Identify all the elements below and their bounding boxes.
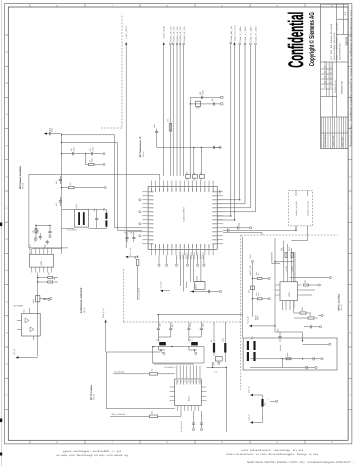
- junction vco feed: [61, 142, 62, 143]
- junction IF out: [190, 103, 191, 104]
- terminal +CC_2V8: [163, 42, 165, 45]
- svg-text:gez-anlage: schaltb. i. pt: gez-anlage: schaltb. i. pt: [63, 450, 122, 453]
- svg-text:RF/Channel Oscillator: RF/Channel Oscillator: [19, 166, 22, 189]
- svg-text:RXI4_IF_2V: RXI4_IF_2V: [183, 25, 186, 41]
- junction ferrite net: [212, 367, 213, 368]
- resistor R552: [69, 187, 75, 189]
- svg-text:100: 100: [134, 256, 137, 259]
- labels RX IF bundle: [170, 25, 186, 41]
- wire DM row2: [250, 359, 305, 368]
- ic U1 bottom grounds: [158, 255, 160, 266]
- capacitor C552: [59, 180, 62, 181]
- junction antenna bottom: [160, 349, 161, 350]
- wire crystal bottom link: [62, 227, 107, 229]
- resistor R560: [169, 124, 171, 132]
- svg-text:Confidential: Confidential: [285, 12, 308, 68]
- svg-text:RXI1_IF_2V: RXI1_IF_2V: [172, 25, 175, 41]
- testpoint pad TP551: [251, 260, 253, 262]
- svg-text:GM4(DAI_IN_OUT): GM4(DAI_IN_OUT): [295, 201, 298, 216]
- capacitor C566: [238, 226, 239, 229]
- svg-text:Q551: Q551: [75, 204, 78, 208]
- pad IF branch B: [221, 103, 223, 105]
- resistor R563: [300, 312, 306, 314]
- ground osc cluster: [49, 234, 51, 238]
- wire U552 left jog: [272, 252, 280, 263]
- wire vco feed B: [62, 143, 143, 231]
- capacitor C568: [311, 325, 312, 328]
- filter FL551 right pins: [201, 387, 206, 401]
- capacitor C558: [43, 299, 46, 300]
- svg-text:Siemens AG: Siemens AG: [341, 81, 344, 94]
- wire R562 out: [302, 285, 316, 295]
- wire antenna mid b: [189, 334, 202, 350]
- capacitor C559: [73, 152, 74, 155]
- transistor T551a: [25, 318, 29, 323]
- wire CC2_AV: [252, 325, 275, 327]
- junction bottom mesh: [302, 340, 303, 341]
- resistor R571: [285, 253, 287, 258]
- svg-text:TEL/SIE 2000 (C): TEL/SIE 2000 (C): [323, 133, 326, 147]
- svg-text:ver plastvert. anzeig. in pt: ver plastvert. anzeig. in pt: [241, 449, 304, 452]
- wire caps to left pins: [127, 232, 142, 234]
- junction DAI merge: [295, 230, 296, 231]
- svg-text:RF_ON DM: RF_ON DM: [115, 371, 125, 374]
- ground R570: [268, 298, 270, 300]
- junction osc rail b: [61, 153, 62, 154]
- capacitor C563: [125, 238, 128, 239]
- resistor R565: [286, 358, 291, 360]
- wire IF out vertical: [189, 97, 191, 175]
- ic U1 right pins: [212, 192, 223, 245]
- terminal +CC2_AV: [249, 325, 252, 327]
- ground R563: [318, 314, 323, 316]
- svg-text:S8078: S8078: [344, 36, 348, 45]
- terminal VCC_IN: [250, 394, 253, 396]
- wire antenna feed down: [105, 320, 107, 352]
- capacitor C581: [213, 102, 214, 105]
- svg-text:B553: B553: [196, 276, 199, 280]
- svg-text:C580: C580: [201, 90, 204, 95]
- capacitor C569: [278, 337, 281, 338]
- wire TX RAMP: [154, 363, 193, 365]
- svg-text:VC2_AV_IST+B: VC2_AV_IST+B: [138, 287, 141, 300]
- ground U552 right: [315, 284, 320, 286]
- pad circle P1: [104, 187, 106, 189]
- ground C566: [246, 227, 252, 229]
- terminal VCC_S: [250, 421, 253, 423]
- svg-text:+CC_2V8: +CC_2V8: [129, 248, 132, 256]
- capacitor C572: [192, 423, 195, 424]
- labels DAI bus: [239, 26, 258, 42]
- resistor R555: [48, 281, 53, 283]
- wire rail drops: [194, 147, 202, 175]
- wire top decoupling rail: [157, 146, 222, 148]
- svg-text:SR: A8: SR: A8: [22, 183, 25, 189]
- wire right outputs: [223, 233, 262, 236]
- svg-text:+CC2_AV: +CC2_AV: [246, 315, 249, 324]
- wire DAI exits: [291, 226, 307, 241]
- svg-text:GND: GND: [219, 189, 222, 194]
- svg-text:+REG_TXDN DM: +REG_TXDN DM: [111, 413, 126, 416]
- svg-text:C: C: [6, 300, 9, 302]
- capacitor C557: [39, 237, 42, 238]
- dashed partition upper: [101, 14, 122, 128]
- oscillator section box: [29, 174, 160, 248]
- svg-text:+AB 1: +AB 1: [188, 338, 193, 341]
- ground top rail: [215, 146, 222, 148]
- svg-text:C7 S2 4E Main Board: C7 S2 4E Main Board: [330, 23, 333, 60]
- wires RX IF bundle: [170, 43, 185, 176]
- svg-text:SHP-Ident: S8078 / S3954 / 100: SHP-Ident: S8078 / S3954 / 1000 / (C) Cr…: [247, 461, 355, 464]
- resistor R551: [89, 163, 95, 165]
- ground B553: [220, 290, 222, 292]
- svg-text:RF/TX_Oscillator: RF/TX_Oscillator: [337, 293, 340, 310]
- wire tx rail A: [274, 238, 276, 330]
- border zone ticks top: [30, 4, 305, 7]
- ground C573: [200, 427, 202, 431]
- svg-text:+TX RAMP 1.2: +TX RAMP 1.2: [164, 366, 176, 369]
- junction column a: [252, 278, 253, 279]
- svg-text:DAI_F_J2N: DAI_F_J2N: [250, 26, 253, 42]
- inductor L558: [213, 343, 215, 353]
- resistor R567: [150, 373, 158, 376]
- capacitor C549: [92, 152, 93, 155]
- junction DAI bend: [239, 199, 240, 200]
- inductor L580: [195, 101, 200, 106]
- svg-text:RF/Transceiver_IC: RF/Transceiver_IC: [139, 136, 142, 157]
- title block row sheet: [337, 18, 348, 20]
- pad IF branch A: [221, 96, 223, 98]
- ic U1 left pins: [142, 192, 153, 245]
- junction vcxo out a: [37, 277, 38, 278]
- svg-text:SCHEMATIC: SCHEMATIC: [338, 42, 341, 60]
- svg-text:Preissn: Preissn: [330, 82, 333, 88]
- titleblock date name rows: [321, 62, 333, 117]
- terminal GSM_IF_IN arrow: [105, 320, 107, 323]
- capacitor C556: [46, 242, 49, 243]
- wire R561 down: [137, 266, 139, 301]
- capacitor C555: [48, 232, 51, 233]
- svg-text:L560: L560: [212, 362, 215, 366]
- wire CC_2V8 to pin: [128, 255, 138, 257]
- wire caps to IC: [187, 172, 201, 181]
- wire vcxo out: [38, 273, 58, 357]
- registration mark: [0, 223, 2, 227]
- wire antenna bus long: [242, 237, 244, 339]
- svg-text:+VTXD: +VTXD: [285, 265, 288, 272]
- wire bottom mesh: [275, 330, 303, 342]
- ground U552 long wire: [329, 277, 331, 279]
- svg-text:U552: U552: [288, 291, 291, 297]
- wire antenna main drop: [157, 315, 159, 322]
- border zone ticks right: [348, 35, 352, 409]
- wire DM row1: [250, 358, 310, 360]
- wire row2 drop: [84, 154, 86, 165]
- title block line v2: [343, 4, 345, 34]
- svg-text:X100-1-7620: X100-1-7620: [341, 137, 344, 147]
- pad row1: [103, 153, 105, 155]
- svg-text:+AT_2V7: +AT_2V7: [125, 26, 128, 39]
- junction top rail b: [201, 147, 202, 148]
- junction osc rail a: [61, 134, 62, 135]
- svg-text:DAI_F_J3N: DAI_F_J3N: [255, 26, 258, 42]
- filter FL551 bottom pins: [178, 406, 199, 411]
- filter B552: [36, 296, 40, 302]
- svg-text:GSM_IF_IN: GSM_IF_IN: [102, 308, 105, 318]
- ground tank: [218, 361, 220, 364]
- wire IF out branch A: [190, 96, 221, 98]
- wires DAI bus: [217, 43, 256, 212]
- svg-text:TXD_IF(I/Q): TXD_IF(I/Q): [28, 244, 31, 255]
- resistor R561: [137, 260, 139, 266]
- junction GSM clock: [230, 215, 231, 216]
- wires U552 bottom: [283, 301, 295, 311]
- capacitor C571: [306, 366, 307, 369]
- terminal +CC_2V8 bottom: [125, 256, 128, 258]
- svg-text:ANTENNA CIRCUIT: ANTENNA CIRCUIT: [80, 287, 83, 314]
- svg-text:TOP A SIEMENS AP LEVEL: TOP A SIEMENS AP LEVEL: [336, 21, 339, 60]
- svg-text:C549: C549: [91, 147, 94, 151]
- svg-text:D: D: [6, 144, 9, 146]
- wire osc feed to IC pin: [159, 174, 161, 180]
- wire B553 bottom rail: [190, 291, 220, 293]
- svg-text:Preissn: Preissn: [330, 77, 333, 83]
- wire GSM clock into IC: [217, 215, 231, 217]
- capacitor C554: [95, 219, 98, 220]
- svg-text:R572: R572: [288, 247, 291, 251]
- svg-text:Preissn: Preissn: [330, 72, 333, 78]
- wire vcxo top rail: [32, 248, 62, 250]
- wire U552 gnd long: [289, 277, 329, 279]
- inductor L552: [159, 342, 166, 345]
- capacitor C553: [59, 201, 62, 202]
- svg-text:GM4(DAI_OUT_IN): GM4(DAI_OUT_IN): [307, 201, 310, 216]
- svg-text:DAI_F_J1N: DAI_F_J1N: [244, 26, 247, 42]
- wire transistor box stubs: [17, 308, 34, 340]
- inductor L554: [253, 341, 255, 350]
- junction shield top: [152, 346, 153, 347]
- wire test point column: [251, 263, 253, 318]
- inductor L557: [191, 342, 198, 345]
- filter FL551 left pins: [170, 387, 175, 401]
- title block row scale: [337, 34, 348, 36]
- svg-text:RXI2_IF_2V: RXI2_IF_2V: [176, 25, 179, 41]
- wire REG_TXDN: [110, 411, 181, 416]
- wire +AT_2V7 rail: [125, 44, 127, 249]
- svg-text:C: C: [349, 300, 352, 302]
- terminal +VC_TXD: [160, 290, 163, 292]
- svg-text:A30808-X4599: A30808-X4599: [332, 136, 335, 147]
- shield box antenna switch: [153, 347, 205, 363]
- wire outputs into B553: [181, 282, 204, 292]
- svg-text:C551: C551: [51, 128, 54, 132]
- svg-text:+AB 1: +AB 1: [156, 338, 161, 341]
- capacitor C551: [50, 132, 51, 135]
- inductor L551: [105, 213, 107, 219]
- ic U1 bottom pins: [151, 244, 214, 255]
- svg-text:VCC_IN: VCC_IN: [247, 386, 250, 393]
- left osc cluster wires: [36, 226, 50, 238]
- ic U551 top pins: [32, 249, 52, 255]
- ground DM row2: [312, 366, 317, 368]
- svg-text:1N8: 1N8: [158, 324, 161, 327]
- ground DM row1: [318, 358, 323, 360]
- svg-text:Drawing-No.: A30808-X4599-X100: Drawing-No.: A30808-X4599-X100-*1-7620 L…: [349, 18, 352, 146]
- wire tank inductors: [214, 322, 225, 362]
- junction top rail a: [193, 147, 194, 148]
- junction column b: [252, 298, 253, 299]
- svg-text:DAI_F_J0N: DAI_F_J0N: [239, 26, 242, 42]
- wire U552 tops up: [284, 241, 295, 277]
- svg-text:NOT fitted: NOT fitted: [14, 305, 23, 308]
- svg-text:Preissn: Preissn: [330, 67, 333, 73]
- svg-text:Copyright © Siemens AG: Copyright © Siemens AG: [308, 12, 316, 66]
- svg-text:+VCXO: +VCXO: [34, 236, 37, 243]
- wire tx link: [275, 261, 294, 263]
- wires U1 bottom outputs: [181, 255, 201, 282]
- resistor R554: [48, 277, 53, 279]
- capacitor C564: [132, 238, 135, 239]
- svg-text:zhn-nummer: n ozr-burstbaugln.: zhn-nummer: n ozr-burstbaugln. lang. a z…: [226, 453, 319, 456]
- svg-text:1N8: 1N8: [201, 324, 204, 327]
- svg-text:Preissn: Preissn: [330, 62, 333, 68]
- capacitor C567: [228, 229, 229, 232]
- wire tx rail B: [293, 252, 295, 282]
- ic U552 top pins: [284, 276, 295, 282]
- ground osc cluster2: [35, 237, 37, 240]
- wire +AT_2V feed: [19, 357, 38, 359]
- resistor R572: [291, 253, 293, 258]
- svg-text:SR: A3: SR: A3: [340, 305, 343, 311]
- svg-text:L559: L559: [221, 338, 224, 342]
- svg-text:D: D: [349, 332, 352, 334]
- svg-text:RXI0_IF_2V: RXI0_IF_2V: [170, 25, 173, 41]
- svg-text:GM4_DD_Q5: GM4_DD_Q5: [230, 26, 233, 41]
- component box L560: [215, 357, 222, 362]
- svg-text:+CC_2V8: +CC_2V8: [163, 26, 166, 39]
- wire VCC_S: [253, 407, 263, 423]
- series box B555: [251, 286, 255, 290]
- title block outline: [321, 4, 349, 149]
- svg-text:2K2: 2K2: [69, 182, 72, 185]
- svg-text:sheet 1: sheet 1: [349, 9, 352, 16]
- border zone ticks bottom: [30, 440, 305, 444]
- wire DAI stubs: [296, 190, 308, 196]
- svg-text:WF/BE RE SA7: WF/BE RE SA7: [334, 80, 337, 93]
- wire osc rail: [61, 135, 63, 254]
- svg-text:VCC_S: VCC_S: [247, 414, 250, 421]
- filter FL551 pin labels: [176, 380, 200, 382]
- title block row desc: [321, 61, 349, 63]
- titleblock small texts: [324, 61, 333, 88]
- ic U1 body: [148, 187, 217, 250]
- inductor L553: [247, 341, 249, 350]
- resistor R569: [257, 277, 262, 279]
- capacitor C565: [209, 290, 210, 293]
- svg-text:+VRXD: +VRXD: [291, 265, 294, 272]
- wire R563 net: [294, 301, 318, 319]
- ic U551 bottom pins: [32, 267, 52, 272]
- scan paper edge line: [1, 0, 3, 466]
- svg-text:1.1: 1.1: [344, 11, 347, 15]
- svg-text:A216217-B853: A216217-B853: [183, 207, 186, 222]
- ic U1 left ground circles: [139, 199, 141, 201]
- junction osc cluster: [35, 225, 36, 226]
- dashed partition main box: [241, 234, 338, 236]
- svg-text:+VC_TXD: +VC_TXD: [160, 281, 163, 289]
- wire tx vertical long: [225, 368, 227, 433]
- svg-text:TQ 26.0MHZ: TQ 26.0MHZ: [67, 229, 77, 232]
- ic U552 right pins: [298, 285, 302, 295]
- ic U1 bottom pin labels: [179, 252, 205, 259]
- terminal +VEXT: [191, 290, 194, 292]
- terminal GSM clock pair: [233, 42, 235, 45]
- svg-text:SR: A6: SR: A6: [93, 394, 96, 400]
- svg-text:TX_EN_S?+B: TX_EN_S?+B: [180, 421, 183, 432]
- border zone ticks left: [5, 35, 9, 409]
- transistor T551b: [30, 327, 34, 332]
- filter B553: [195, 282, 206, 290]
- wire antenna main: [158, 314, 243, 316]
- wire to gnd bottom: [303, 343, 326, 345]
- svg-text:C1N: C1N: [189, 323, 192, 327]
- wire ferrite net: [207, 362, 227, 368]
- terminal +AT_2V7: [125, 42, 127, 45]
- transistor T552 stub: [270, 400, 274, 402]
- wire vco feed A: [62, 135, 143, 228]
- ground C558: [48, 299, 50, 301]
- inductor L556: [261, 399, 263, 407]
- svg-text:R551: R551: [91, 158, 94, 162]
- pad row2: [103, 164, 105, 166]
- registration mark: [0, 419, 2, 423]
- filter FL551: [175, 379, 202, 406]
- junction DM row1: [282, 358, 283, 359]
- junction osc rail c: [61, 187, 62, 188]
- title block line v1: [336, 4, 338, 117]
- registration mark: [0, 453, 2, 456]
- resistor R570: [257, 298, 262, 300]
- dashed box DAI interface: [289, 190, 313, 226]
- svg-text:4P7: 4P7: [171, 324, 174, 327]
- junction CC bottom: [137, 256, 138, 257]
- ground R569: [268, 277, 270, 279]
- wire VCC_IN: [253, 395, 263, 399]
- wire crystal top link: [62, 210, 107, 213]
- titleblock revision strip: [321, 117, 349, 149]
- wire +CC_2V8 rail: [163, 44, 165, 176]
- svg-text:03.08.00: 03.08.00: [324, 81, 327, 88]
- svg-text:Assembly Variant:: Assembly Variant:: [333, 31, 336, 60]
- ic U552 left pins: [276, 285, 280, 295]
- title block row company: [321, 116, 349, 118]
- capacitor C560: [155, 132, 158, 133]
- inductor L559: [224, 343, 226, 353]
- svg-text:C: C: [6, 113, 9, 115]
- capacitor C561: [213, 146, 214, 149]
- svg-text:GM4_DD_CLK: GM4_DD_CLK: [234, 24, 237, 41]
- capacitor C580: [202, 96, 203, 99]
- ground C572: [192, 427, 194, 431]
- capacitor bank C562: [186, 175, 191, 179]
- svg-text:+VBATT_RF: +VBATT_RF: [249, 265, 252, 276]
- section box DM: [243, 338, 337, 370]
- ic U552 modulator: [280, 282, 298, 301]
- capacitor bank antenna input: [157, 328, 160, 329]
- section box TX control: [106, 352, 174, 409]
- wire antenna mid a: [158, 334, 171, 350]
- junction antenna main: [158, 314, 159, 315]
